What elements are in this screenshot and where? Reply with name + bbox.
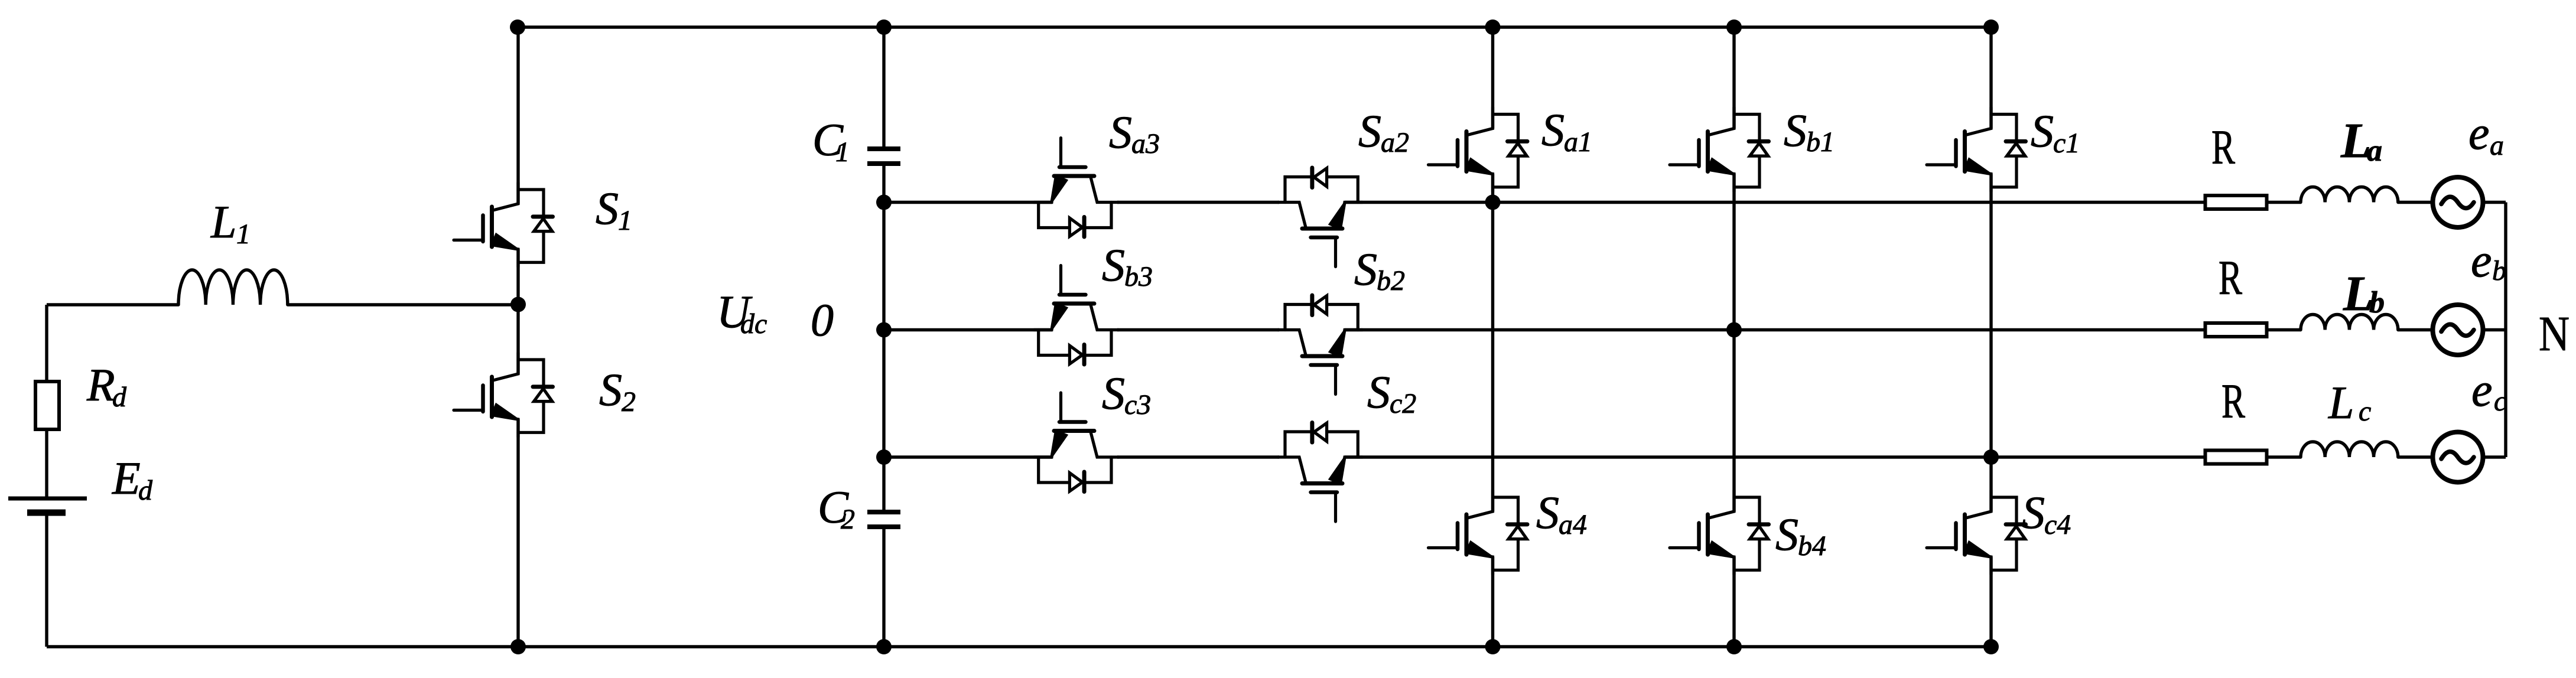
svg-text:S: S [1358,105,1381,157]
wire: R to Lc [2269,455,2301,458]
svg-text:2: 2 [622,386,636,418]
svg-text:a2: a2 [1381,127,1409,158]
capacitor C1 [867,146,900,151]
transistor Sa2 (IGBT with antiparallel diode) [1278,168,1362,267]
wire: R to La [2269,201,2301,204]
transistor Sb3 (IGBT with antiparallel diode) [1034,266,1118,365]
node: top bus / leg c [1983,19,1999,35]
wire: Lb to source eb [2398,328,2433,331]
wire: leg b, Sb4 emitter to bottom bus [1732,557,1735,647]
svg-text:R: R [2211,120,2235,174]
svg-text:e: e [2468,107,2490,159]
svg-text:L: L [2328,377,2354,428]
wire: right neutral return (node N) [2504,203,2507,458]
svg-text:d: d [112,382,127,413]
transistor S2 (IGBT with antiparallel diode) [454,353,553,437]
wire: L1 to S1/S2 midpoint [288,303,518,306]
inductor L1 [178,270,288,305]
svg-text:a1: a1 [1564,126,1592,158]
AC source eb [2433,305,2483,355]
wire: Sb3 to Sb2 [1117,328,1279,331]
transistor Sa3 (IGBT with antiparallel diode) [1034,138,1118,237]
svg-text:S: S [1536,487,1559,538]
transistor Sb2 (IGBT with antiparallel diode) [1278,295,1362,395]
svg-text:a: a [2490,130,2504,161]
wire: DC-link bus, top to C1 [882,27,885,149]
wire: boost leg, top bus to S1 collector [516,27,519,204]
wire: boost leg, S1 emitter to S2 collector [516,249,519,374]
wire: leg b, Sb1 emitter to Sb4 collector [1732,174,1735,512]
svg-text:S: S [1109,106,1132,158]
svg-text:b4: b4 [1798,530,1826,562]
wire: DC-link bus, C1 to C2 (neutral section) [882,164,885,512]
svg-text:S: S [1102,367,1125,419]
wire: leg a, Sa1 emitter to Sa4 collector [1491,174,1494,512]
svg-text:0: 0 [811,294,834,345]
svg-text:S: S [1775,508,1798,560]
svg-text:a4: a4 [1559,509,1587,540]
transistor Sc3 (IGBT with antiparallel diode) [1034,393,1118,492]
svg-text:c: c [2359,396,2371,427]
svg-text:S: S [1102,239,1125,291]
wire: Sb2 to phase-b leg and load R [1345,328,2204,331]
node: bottom bus / leg a [1485,639,1501,654]
svg-text:c2: c2 [1390,388,1416,419]
transistor Sa4 (IGBT with antiparallel diode) [1429,490,1528,575]
node: phase a output [1485,195,1501,210]
transistor Sc2 (IGBT with antiparallel diode) [1278,423,1362,522]
node: phase b output [1726,322,1742,338]
capacitor C2 [867,510,900,514]
wire: neutral rail to Sc3 [884,455,1052,458]
svg-text:b1: b1 [1806,126,1835,158]
svg-text:1: 1 [618,205,632,236]
svg-text:b2: b2 [1377,265,1405,296]
node: phase c output [1983,449,1999,465]
wire: Sc2 to phase-c leg and load R [1345,455,2204,458]
wire: source ec to neutral N [2483,455,2506,458]
resistor R (phase b) [2206,323,2267,337]
transistor Sb1 (IGBT with antiparallel diode) [1670,107,1769,192]
node: top bus / DC-link bus [876,19,892,35]
node: top bus / boost leg [510,19,525,35]
svg-text:N: N [2539,307,2570,361]
transistor Sb4 (IGBT with antiparallel diode) [1670,490,1769,575]
svg-text:S: S [596,182,619,234]
wire: Sa3 to Sa2 [1117,201,1279,204]
svg-text:S: S [1367,366,1390,418]
wire: Ed corner to L1 [47,303,178,306]
svg-text:d: d [138,475,153,506]
svg-text:S: S [599,364,622,415]
svg-text:b: b [2369,286,2385,320]
svg-text:1: 1 [835,136,850,168]
svg-text:b: b [2492,255,2506,286]
node: S1/S2 midpoint [510,297,526,312]
node: bottom bus / DC-link bus [876,639,892,654]
wire: boost leg, S2 emitter to bottom bus [516,419,519,647]
svg-text:b3: b3 [1124,261,1153,292]
node 0: neutral point rail b tap [876,322,892,338]
wire: leg a, top bus to Sa1 [1491,27,1494,129]
wire: La to source ea [2398,201,2433,204]
svg-text:S: S [1354,243,1377,295]
svg-text:R: R [2219,250,2242,305]
wire: leg a, Sa4 emitter to bottom bus [1491,557,1494,647]
wire: battery branch upper segment [45,305,48,498]
svg-text:a: a [2367,134,2382,168]
node: top bus / leg a [1485,19,1501,35]
svg-text:c: c [2494,386,2506,417]
wire: Sc3 to Sc2 [1117,455,1279,458]
wire: source ea to neutral N [2483,201,2506,204]
AC source ec [2433,432,2483,483]
inductor La [2301,187,2398,203]
svg-text:e: e [2471,364,2493,416]
wire: leg c, top bus to Sc1 [1989,27,1992,129]
node: bottom bus / leg b [1726,639,1742,654]
wire: leg c, Sc1 emitter to Sc4 collector [1989,174,1992,512]
AC source ea [2433,177,2483,227]
resistor Rd [35,382,59,429]
node 0: neutral point rail c tap [876,449,892,465]
wire: leg b, top bus to Sb1 [1732,27,1735,129]
inductor Lc [2301,442,2398,457]
svg-text:dc: dc [740,308,767,340]
battery Ed long plate (+) [8,497,87,501]
svg-text:S: S [1541,104,1565,155]
svg-text:e: e [2471,235,2492,287]
transistor Sc4 (IGBT with antiparallel diode) [1927,490,2026,575]
wire: top DC bus (P) [518,25,1991,28]
node: bottom bus / leg c [1983,639,1999,654]
transistor Sc1 (IGBT with antiparallel diode) [1927,107,2026,192]
wire: R to Lb [2269,328,2301,331]
svg-text:a3: a3 [1131,128,1160,159]
resistor R (phase a) [2206,195,2267,209]
svg-text:R: R [2222,374,2245,428]
wire: battery branch lower segment [45,513,48,647]
wire: leg c, Sc4 emitter to bottom bus [1989,557,1992,647]
svg-text:S: S [1784,105,1807,156]
wire: Lc to source ec [2398,455,2433,458]
wire: neutral rail to Sb3 [884,328,1052,331]
node: top bus / leg b [1726,19,1742,35]
node 0: neutral point rail a tap [876,195,892,210]
wire: Sa2 to phase-a leg and load R [1345,201,2204,204]
wire: source eb to neutral N [2483,328,2506,331]
svg-text:R: R [86,359,115,410]
inductor Lb [2301,315,2398,330]
battery Ed short plate (-) [27,510,66,516]
svg-text:c3: c3 [1124,389,1151,421]
transistor S1 (IGBT with antiparallel diode) [454,182,553,267]
svg-text:S: S [2022,487,2045,538]
node: bottom bus / boost leg [510,639,526,654]
wire: bottom DC bus (negative) [47,645,1991,648]
wire: DC-link bus, C2 to bottom [882,527,885,647]
wire: neutral rail to Sa3 [884,201,1052,204]
transistor Sa1 (IGBT with antiparallel diode) [1429,107,1528,192]
svg-text:S: S [2031,105,2054,157]
svg-text:L: L [210,196,236,247]
svg-text:c4: c4 [2044,509,2071,540]
svg-text:c1: c1 [2053,128,2080,159]
resistor R (phase c) [2206,451,2267,464]
svg-text:1: 1 [236,219,251,250]
svg-text:2: 2 [841,504,855,535]
svg-text:E: E [112,452,141,504]
